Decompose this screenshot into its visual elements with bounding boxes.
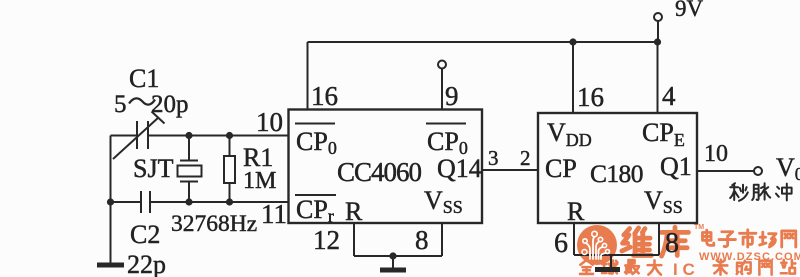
svg-text:9: 9 [445, 81, 459, 111]
svg-text:C1: C1 [129, 64, 159, 93]
node ground CC4060 [389, 252, 396, 259]
watermark big text wei-ku [622, 227, 689, 256]
svg-text:4: 4 [662, 81, 676, 111]
svg-text:I C: I C [673, 260, 695, 277]
svg-text:Q1: Q1 [660, 152, 692, 181]
svg-text:3: 3 [488, 146, 499, 170]
svg-text:R: R [345, 197, 363, 226]
svg-text:8: 8 [665, 228, 679, 259]
svg-text:16: 16 [577, 82, 604, 112]
wire bottom rail left segment [111, 201, 142, 203]
label seconds-pulse (miao-mai-chong) [730, 183, 791, 201]
wire pin6 C180 to ground [573, 223, 575, 255]
ground (left) [97, 263, 124, 268]
terminal pin 9 CC4060 [438, 61, 446, 69]
watermark url [699, 251, 800, 263]
IC CC4060 inner labels [295, 124, 482, 227]
wire pin16 CC4060 to 9V rail [307, 42, 309, 110]
wire pin16 C180 [572, 42, 574, 113]
capacitor C1 arrow [113, 112, 165, 160]
svg-text:6: 6 [554, 228, 568, 259]
svg-text:11: 11 [261, 199, 287, 229]
node R1 bottom [226, 198, 233, 205]
IC U2 C180 box [538, 113, 697, 223]
svg-text:12: 12 [313, 225, 340, 255]
ground (CC4060) [380, 268, 406, 273]
wire pin12 CC4060 to ground [353, 223, 355, 256]
svg-text:16: 16 [311, 81, 338, 111]
wire top rail right segment to pin 10 [148, 135, 289, 137]
wire left vertical (C1/C2 common to ground) [110, 136, 112, 265]
svg-text:Q14: Q14 [437, 154, 482, 183]
terminal 9V supply [654, 13, 662, 21]
resistor R1 [229, 136, 231, 157]
wire pin4 C180 [657, 42, 659, 113]
svg-text:5: 5 [114, 91, 127, 118]
op IC U1 CC4060 box [289, 110, 483, 224]
wire Q14 to CP [482, 169, 538, 171]
svg-text:10: 10 [256, 107, 283, 137]
capacitor C2 plates [141, 191, 150, 213]
svg-text:1M: 1M [243, 168, 276, 194]
IC C180 inner labels [545, 118, 692, 226]
node R1 top [226, 132, 233, 139]
node crystal top [185, 132, 192, 139]
wire pin8 CC4060 to ground [441, 223, 443, 256]
watermark text dian-zi-shi-chang-wang [702, 230, 795, 247]
crystal SJT [188, 136, 190, 161]
svg-text:R: R [567, 197, 585, 226]
wire pin8 C180 to ground [658, 223, 660, 255]
svg-text:CP: CP [545, 154, 577, 183]
svg-text:9V: 9V [675, 0, 704, 21]
ground (C180) [595, 267, 620, 272]
svg-text:32768Hz: 32768Hz [171, 211, 257, 237]
node 9V rail pin16 C180 [569, 38, 576, 45]
watermark logo circle [577, 225, 617, 265]
svg-text:10: 10 [704, 141, 728, 167]
terminal output V0 [754, 167, 762, 175]
svg-text:C180: C180 [590, 159, 643, 188]
node 9V rail pin4 C180 [654, 38, 661, 45]
svg-text:8: 8 [415, 225, 429, 255]
wire ground link CC4060 [354, 255, 442, 257]
wire top rail left segment [111, 135, 138, 137]
capacitor C1 (trimmer) plates [137, 121, 148, 149]
watermark logo circuit-tree (white, over wires) [582, 231, 610, 259]
svg-text:22p: 22p [127, 250, 166, 277]
svg-text:TM: TM [694, 224, 704, 231]
wire ground link C180 [574, 254, 659, 256]
node ground left [107, 198, 114, 205]
svg-text:SJT: SJT [133, 154, 174, 183]
node crystal bottom [185, 198, 192, 205]
svg-text:C2: C2 [130, 220, 160, 249]
watermark bottom row quan-qiu-zui-da-IC-cai-gou-wang-zhan [580, 260, 795, 275]
wire 9V top rail [308, 41, 658, 43]
svg-text:20p: 20p [151, 91, 189, 118]
svg-text:CC4060: CC4060 [337, 157, 422, 187]
wire Q1 output [697, 170, 754, 172]
svg-text:2: 2 [520, 146, 531, 170]
wire bottom rail right segment to pin 11 [150, 201, 289, 203]
